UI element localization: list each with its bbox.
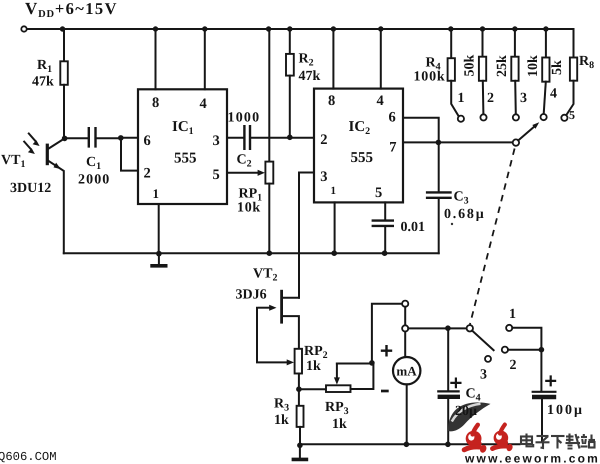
svg-text:2000: 2000 <box>78 173 110 188</box>
svg-text:100k: 100k <box>414 70 446 85</box>
svg-text:RP3: RP3 <box>325 400 349 417</box>
svg-text:8: 8 <box>328 93 335 109</box>
svg-text:1: 1 <box>509 307 516 322</box>
junction dots on VDD bus <box>60 26 65 31</box>
wire T2 to switch S1b <box>408 327 466 329</box>
resistor R7 10k <box>545 29 547 58</box>
svg-text:VDD+6~15V: VDD+6~15V <box>25 0 118 20</box>
switch contact 3 <box>513 114 519 120</box>
svg-text:1k: 1k <box>274 413 289 428</box>
svg-text:6: 6 <box>144 133 151 149</box>
switch contact 1 <box>458 116 464 122</box>
wire IC2 pin 4 to bus <box>380 29 382 89</box>
transistor VT2 FET <box>280 290 283 324</box>
capacitor C3 <box>438 142 440 191</box>
svg-text:www.eeworm.com: www.eeworm.com <box>464 452 600 464</box>
switch contact 3b <box>485 356 491 362</box>
svg-text:1000: 1000 <box>228 111 261 126</box>
svg-text:2: 2 <box>487 91 494 106</box>
svg-text:4: 4 <box>377 93 384 109</box>
svg-text:3DU12: 3DU12 <box>10 181 51 196</box>
wire IC2 pin 8 to bus <box>332 29 334 89</box>
switch contact 2 <box>480 114 486 120</box>
svg-text:47k: 47k <box>299 69 321 84</box>
resistor R5 50k <box>482 29 484 57</box>
capacitor 0.01 <box>372 221 394 226</box>
node collector junction <box>62 136 68 142</box>
meter mA <box>404 332 406 358</box>
svg-text:5k: 5k <box>550 60 565 75</box>
node C4 junction <box>445 325 451 331</box>
capacitor C4 20u <box>447 328 449 390</box>
svg-text:5: 5 <box>375 185 382 201</box>
resistor R2 <box>289 29 291 54</box>
dian <box>521 437 532 445</box>
svg-text:2: 2 <box>144 166 151 182</box>
resistor R8 5k <box>570 58 577 81</box>
wire IC2 pin 7 to range switch wiper <box>403 141 512 143</box>
svg-text:2: 2 <box>510 358 517 373</box>
svg-text:50k: 50k <box>463 55 478 77</box>
svg-text:mA: mA <box>396 364 417 379</box>
polarity + <box>381 345 392 357</box>
svg-text:1k: 1k <box>306 359 321 374</box>
dashed gang link <box>470 149 515 325</box>
switch contact 1b <box>506 325 512 331</box>
wire IC1 pin 3 <box>227 137 243 139</box>
wire loop pin6 to pin2 <box>121 138 138 171</box>
switch wiper S1a <box>513 139 519 145</box>
ground <box>297 443 303 449</box>
svg-text:1: 1 <box>331 185 337 197</box>
wire IC2 pin 5 down <box>384 202 386 220</box>
wire T1-T2 <box>404 307 406 326</box>
svg-text:Q606.COM: Q606.COM <box>0 450 57 464</box>
wire VDD top bus <box>27 29 574 58</box>
svg-text:1k: 1k <box>332 417 347 432</box>
resistor R1 <box>63 29 65 61</box>
svg-text:3DJ6: 3DJ6 <box>236 288 267 303</box>
node ground junctions <box>156 251 162 257</box>
svg-text:5: 5 <box>213 167 220 183</box>
svg-text:10k: 10k <box>526 55 541 77</box>
svg-text:R8: R8 <box>579 54 594 71</box>
watermark site name glyphs <box>521 434 595 449</box>
wire IC2 pin 6 to pin 7 node <box>403 118 439 143</box>
switch wiper S1b <box>467 325 473 331</box>
zhan <box>583 434 585 436</box>
svg-text:555: 555 <box>351 150 374 166</box>
svg-text:3: 3 <box>320 169 327 185</box>
svg-text:20μ: 20μ <box>455 404 477 419</box>
switch contact 4 <box>541 114 547 120</box>
resistor R6 25k <box>514 29 516 57</box>
op-amp IC2 555 timer <box>314 89 403 203</box>
svg-text:100μ: 100μ <box>547 403 584 418</box>
wire IC1 pin 5 to RP1 wiper <box>227 172 259 174</box>
svg-text:C4: C4 <box>466 387 481 404</box>
potentiometer RP3 <box>299 388 326 390</box>
svg-text:R2: R2 <box>299 52 314 69</box>
watermark bug 1 <box>464 425 487 454</box>
wire IC2 pin 1 to ground bus <box>334 202 336 253</box>
xia <box>551 435 565 437</box>
svg-text:8: 8 <box>152 95 159 111</box>
resistor R3 <box>298 389 300 406</box>
svg-text:5: 5 <box>569 108 575 122</box>
wire meter branch up <box>372 304 402 363</box>
node pin7 junction <box>436 140 442 146</box>
zi <box>537 435 549 437</box>
terminal T2 <box>402 325 408 331</box>
svg-text:7: 7 <box>389 140 396 156</box>
svg-text:3: 3 <box>213 133 220 149</box>
svg-text:C3: C3 <box>454 190 469 207</box>
wire IC1 pin 8 to bus <box>155 29 157 89</box>
ground <box>158 254 160 265</box>
capacitor C1 <box>89 127 96 148</box>
svg-text:VT1: VT1 <box>1 153 25 170</box>
op-amp IC1 555 timer <box>138 89 227 204</box>
terminal VDD input <box>21 26 26 31</box>
watermark bug 2 <box>492 425 513 453</box>
svg-text:25k: 25k <box>495 55 510 77</box>
svg-text:4: 4 <box>550 87 557 102</box>
svg-text:0.68μ: 0.68μ <box>444 207 485 222</box>
wire IC2 pin 3 down to VT2 drain <box>299 173 314 298</box>
svg-text:VT2: VT2 <box>253 267 277 284</box>
wire IC1 pin 1 to ground bus <box>158 204 160 253</box>
svg-text:2: 2 <box>320 132 327 148</box>
potentiometer RP1 <box>268 29 270 162</box>
svg-text:0.01: 0.01 <box>401 220 426 235</box>
potentiometer RP2 <box>295 349 302 374</box>
capacitor C5 100u <box>540 350 542 391</box>
polarity - <box>381 390 389 393</box>
terminal T1 <box>402 301 408 307</box>
svg-text:C1: C1 <box>86 155 101 172</box>
node RP2/R3/RP3 junction <box>296 386 302 392</box>
capacitor C2 <box>244 125 250 150</box>
switch contact 2b <box>502 347 508 353</box>
watermark swoosh <box>448 402 491 431</box>
wire ground bus <box>64 252 439 254</box>
svg-text:4: 4 <box>200 96 207 112</box>
svg-text:47k: 47k <box>32 75 54 90</box>
wire IC1 pin 4 to bus <box>204 29 206 89</box>
node meter branch junction <box>369 360 375 366</box>
node pin6 junction <box>118 135 124 141</box>
svg-text:C2: C2 <box>237 153 252 170</box>
svg-text:6: 6 <box>389 110 396 126</box>
svg-text:R1: R1 <box>37 58 52 75</box>
svg-text:3: 3 <box>520 91 527 106</box>
svg-text:555: 555 <box>174 151 197 167</box>
node R2/C2/pin2 junction <box>287 135 293 141</box>
svg-text:10k: 10k <box>237 201 261 216</box>
wire bottom bus <box>300 443 520 445</box>
light arrows into VT1 <box>29 134 35 141</box>
resistor R4 100k <box>450 29 452 58</box>
wire to IC1 pin 6 <box>121 137 138 139</box>
wire collector to C1 <box>65 137 88 139</box>
switch contact 5 <box>561 115 567 121</box>
svg-text:1: 1 <box>458 91 465 106</box>
zai <box>568 434 570 443</box>
svg-text:1: 1 <box>153 186 160 201</box>
svg-text:3: 3 <box>480 368 487 383</box>
svg-text:R3: R3 <box>274 397 289 414</box>
transistor VT1 phototransistor <box>49 138 65 148</box>
